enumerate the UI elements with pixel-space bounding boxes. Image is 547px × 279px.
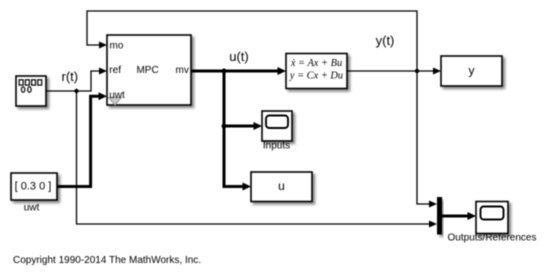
wire: u(t) thick bus mv -> state-space — [191, 70, 279, 73]
svg-text:mv: mv — [176, 65, 189, 76]
wire: r branch down to mux — [77, 91, 432, 224]
junction dot r(t) branch — [74, 89, 78, 93]
svg-text:y(t): y(t) — [376, 33, 395, 48]
svg-text:mo: mo — [110, 41, 124, 52]
svg-text:y = Cx + Du: y = Cx + Du — [289, 71, 343, 82]
arrowhead into mux upper input — [429, 201, 437, 208]
wire: branch to Inputs scope — [224, 125, 255, 128]
svg-text:Copyright 1990-2014 The MathWo: Copyright 1990-2014 The MathWorks, Inc. — [13, 255, 201, 266]
arrowhead into MPC mo port — [99, 42, 107, 49]
svg-text:Outputs/References: Outputs/References — [448, 233, 537, 244]
arrowhead into mux lower input — [429, 221, 437, 228]
svg-text:ref: ref — [109, 65, 121, 76]
arrowhead into u block — [243, 183, 252, 191]
block: Inputs scope — [262, 111, 292, 152]
mux — [437, 197, 442, 235]
wire: y from state-space to y block and down to mux — [347, 70, 435, 72]
block: y outport — [441, 56, 502, 86]
svg-text:uwt: uwt — [24, 203, 40, 214]
svg-text:u: u — [278, 179, 285, 193]
junction dot u(t) — [222, 69, 227, 74]
block: signal source (references) — [16, 76, 46, 106]
arrowhead into Outputs scope — [468, 212, 477, 220]
arrowhead into y block — [433, 68, 441, 75]
wire: uwt thick from [0.3 0] up to u.wt port — [57, 96, 99, 186]
arrowhead into MPC u.wt port — [99, 92, 108, 100]
svg-text:MPC: MPC — [136, 65, 158, 76]
svg-text:[ 0.3 0 ]: [ 0.3 0 ] — [15, 181, 52, 193]
junction dot y — [415, 69, 419, 73]
mask indicator triangle on u.wt port — [109, 98, 122, 106]
wire: r(t) from source to ref port — [46, 71, 101, 91]
block: MPC controller — [107, 35, 191, 105]
svg-text:uwt: uwt — [109, 90, 125, 101]
svg-text:ẋ = Ax + Bu: ẋ = Ax + Bu — [290, 58, 342, 69]
junction dot u branch to Inputs scope — [222, 124, 227, 129]
block: state-space plant — [286, 54, 347, 89]
svg-text:u(t): u(t) — [229, 49, 249, 64]
wire: feedback mo loop (417,71)->(417,11)->(87,11)->(87,45)->(101,45) — [87, 11, 417, 71]
arrowhead into MPC ref port — [99, 68, 107, 75]
svg-text:r(t): r(t) — [61, 69, 78, 84]
wire: y down branch to mux — [417, 71, 431, 204]
block: Outputs/References scope — [448, 202, 537, 244]
block: u outport — [251, 172, 312, 202]
wire: mux output to Outputs/References scope — [442, 215, 469, 218]
svg-text:y: y — [469, 64, 475, 78]
block: uwt constant [0.3 0] — [11, 173, 57, 214]
arrowhead into Inputs scope — [254, 122, 263, 130]
arrowhead into state-space — [278, 67, 287, 75]
wire: u(t) down branch — [224, 71, 244, 187]
svg-text:Inputs: Inputs — [263, 141, 290, 152]
